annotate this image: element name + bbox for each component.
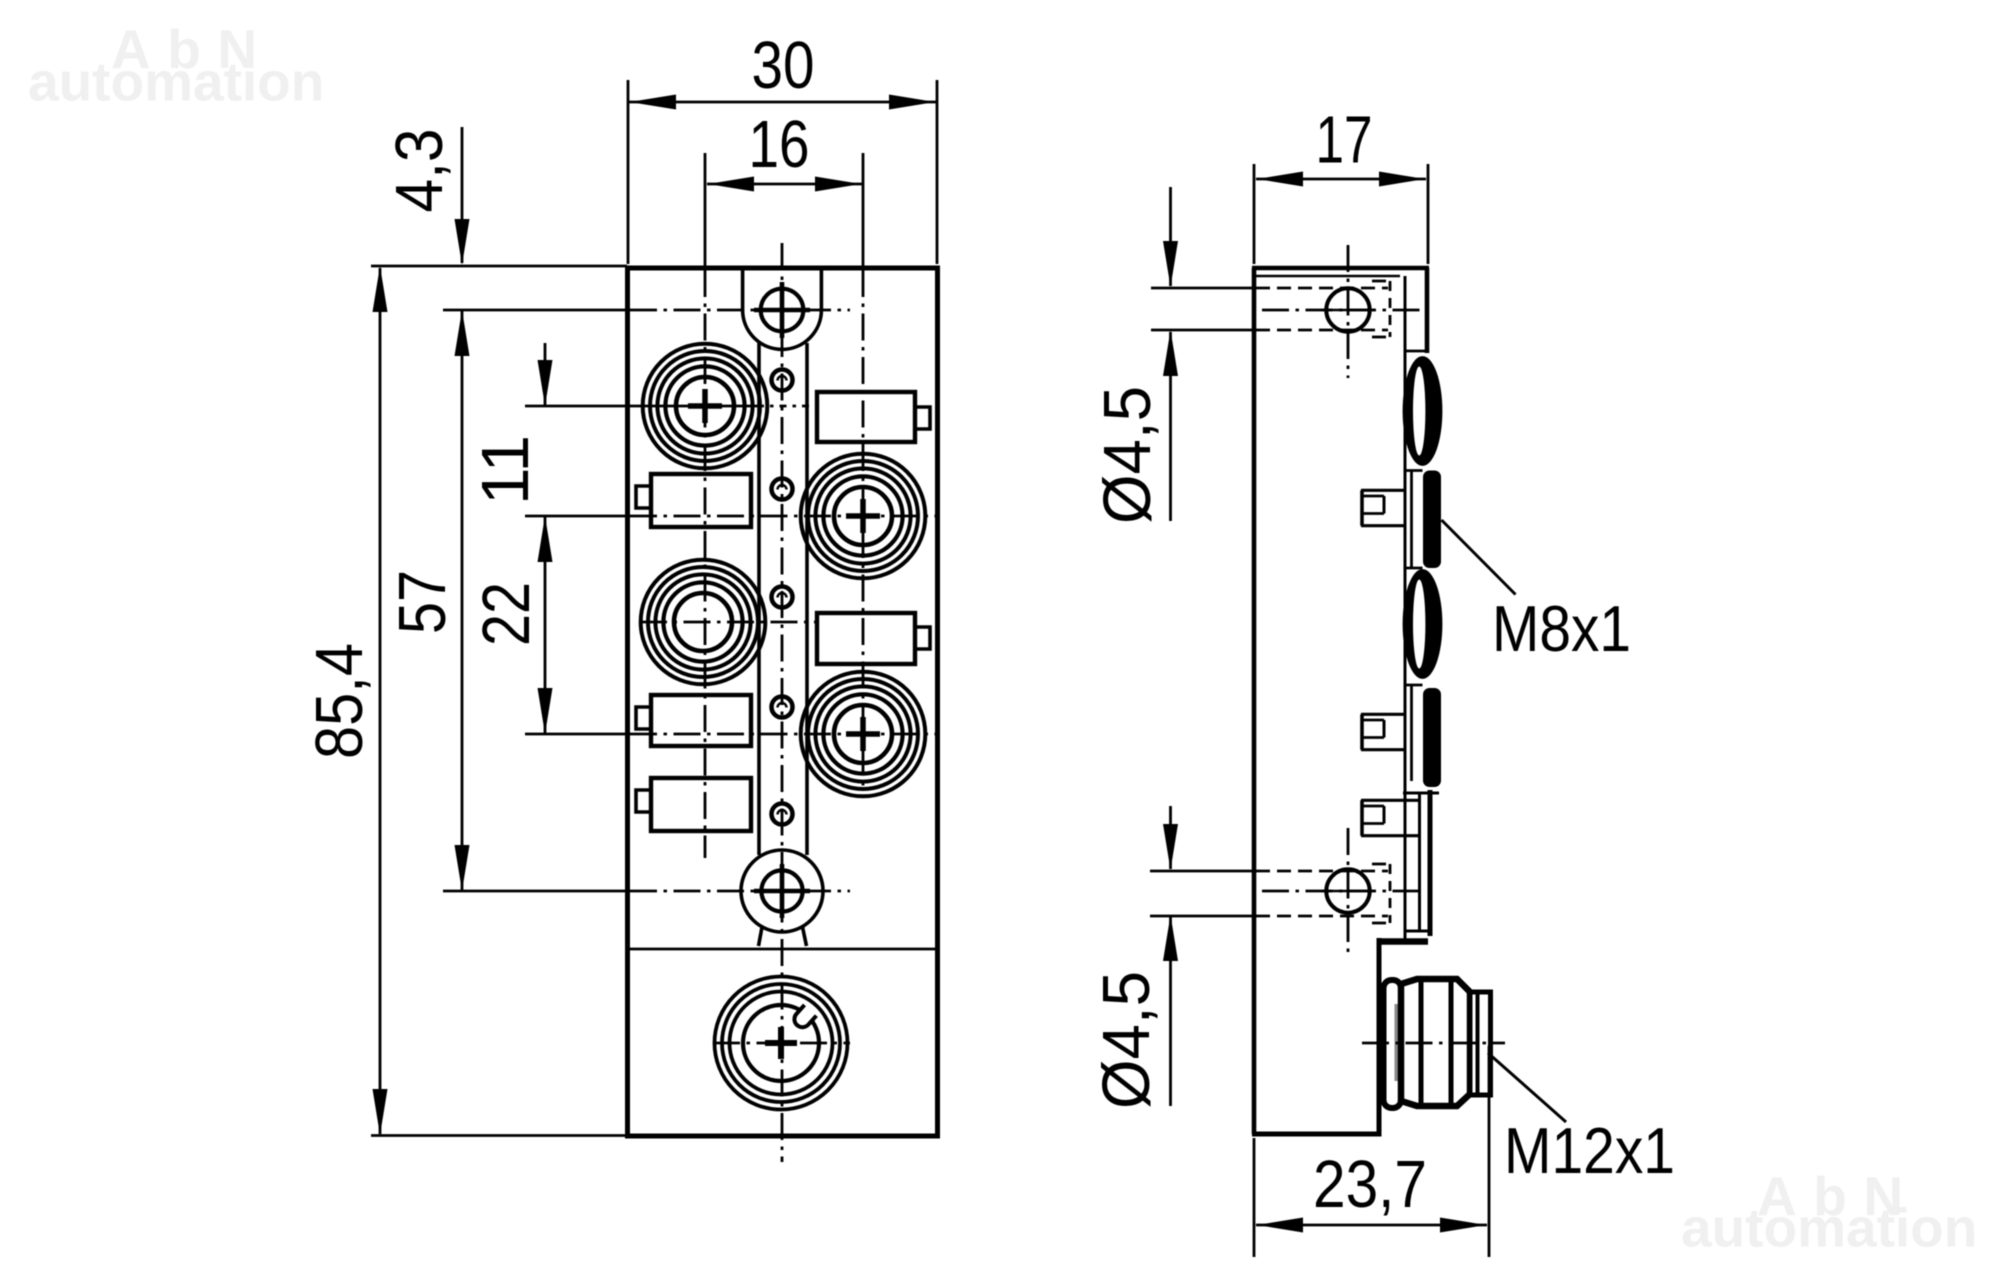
svg-text:Ø4,5: Ø4,5 [1089,971,1164,1109]
svg-text:22: 22 [469,582,544,646]
svg-text:4,3: 4,3 [382,129,457,213]
svg-text:16: 16 [749,107,810,182]
svg-text:automation: automation [28,51,324,113]
svg-text:M12x1: M12x1 [1504,1114,1675,1187]
svg-text:11: 11 [468,435,543,505]
svg-text:57: 57 [385,570,460,634]
svg-text:M8x1: M8x1 [1492,592,1631,665]
svg-text:automation: automation [1681,1196,1977,1258]
svg-text:17: 17 [1316,103,1373,178]
svg-text:23,7: 23,7 [1313,1147,1427,1222]
svg-text:30: 30 [752,28,815,103]
svg-text:Ø4,5: Ø4,5 [1090,386,1165,524]
svg-text:85,4: 85,4 [302,643,377,759]
